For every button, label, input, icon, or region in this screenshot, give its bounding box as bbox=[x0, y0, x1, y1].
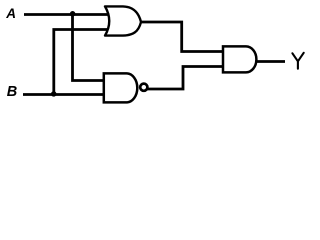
wire B input bbox=[23, 93, 106, 96]
node A junction bbox=[70, 11, 76, 16]
node B junction bbox=[51, 91, 57, 97]
output label Y bbox=[292, 53, 303, 69]
AND gate U3 bbox=[223, 46, 256, 72]
wire A branch down to NAND top input bbox=[73, 15, 107, 81]
svg-text:A: A bbox=[5, 6, 16, 21]
NAND gate U2 inverter bubble bbox=[140, 84, 147, 91]
svg-text:B: B bbox=[7, 84, 17, 100]
NAND gate U2 body bbox=[104, 73, 137, 102]
input label B bbox=[7, 84, 17, 100]
wire A input bbox=[24, 13, 108, 16]
wire OR output to AND top input bbox=[138, 22, 224, 52]
wire B branch up to OR bottom input bbox=[54, 30, 108, 95]
wire AND output bbox=[254, 60, 285, 63]
wire NAND output to AND bottom input bbox=[147, 67, 224, 90]
OR gate U1 bbox=[105, 6, 141, 35]
input label A bbox=[5, 6, 16, 21]
